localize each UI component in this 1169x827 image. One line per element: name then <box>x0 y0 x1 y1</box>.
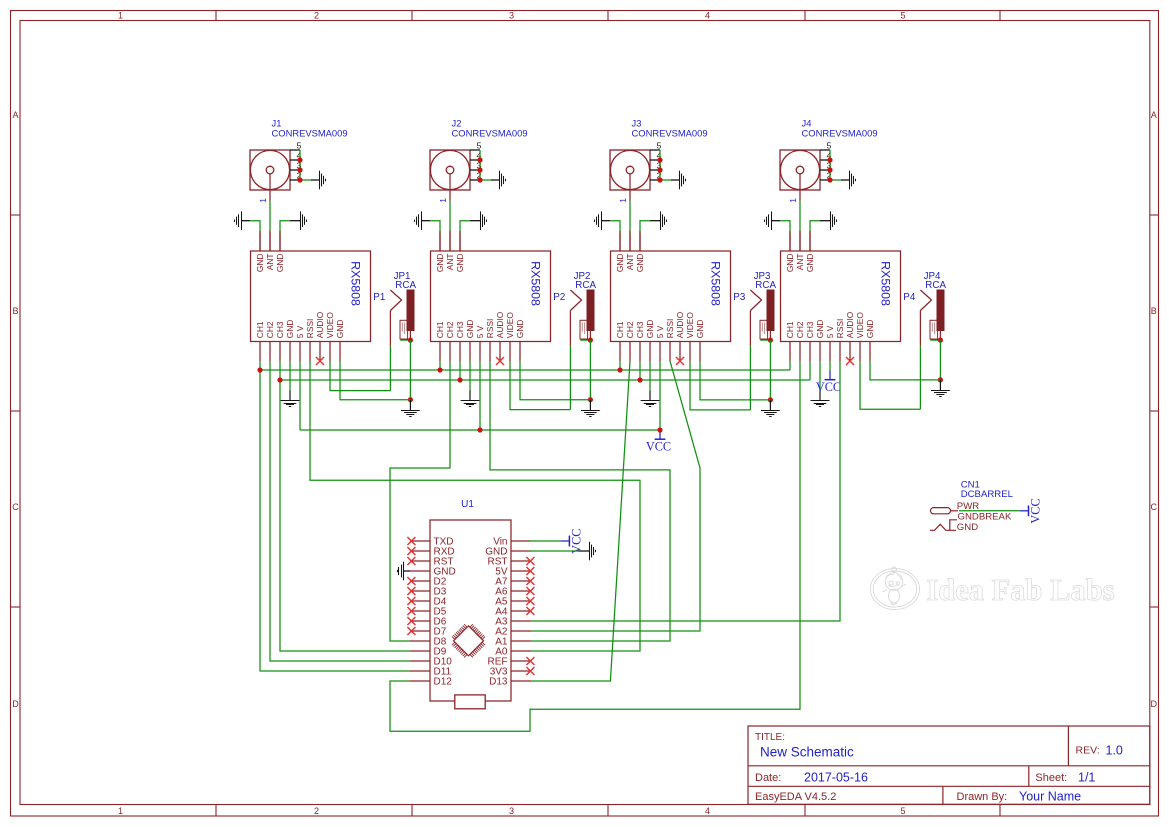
ground <box>281 390 300 406</box>
svg-text:3: 3 <box>509 806 514 816</box>
svg-text:CONREVSMA009: CONREVSMA009 <box>802 127 878 138</box>
J2 pins 5-2 <box>470 140 482 180</box>
svg-text:GND: GND <box>615 254 625 273</box>
svg-text:GND: GND <box>335 320 345 339</box>
svg-text:ANT: ANT <box>265 254 275 271</box>
junction <box>938 338 943 343</box>
wire <box>300 150 311 180</box>
wire <box>619 361 621 370</box>
svg-text:1: 1 <box>618 198 628 203</box>
ground <box>481 211 487 230</box>
wire <box>639 361 641 380</box>
no-connect AUDIO RX3 <box>676 357 684 365</box>
J3 pin 1 <box>618 190 630 203</box>
ground <box>850 171 856 190</box>
svg-text:5 V: 5 V <box>655 325 665 338</box>
svg-text:1: 1 <box>118 806 123 816</box>
wire <box>389 345 391 391</box>
svg-text:5: 5 <box>657 140 662 150</box>
svg-text:CH3: CH3 <box>635 321 645 338</box>
svg-text:RSSI: RSSI <box>305 319 315 339</box>
ground <box>680 171 686 190</box>
svg-text:1.0: 1.0 <box>1106 744 1123 758</box>
receiver module RX5808 #2 <box>431 231 551 361</box>
svg-text:B: B <box>1151 306 1157 316</box>
J4 pin 1 <box>788 190 800 203</box>
ground <box>500 171 506 190</box>
svg-text:1: 1 <box>258 198 268 203</box>
wire <box>629 231 631 252</box>
svg-text:Drawn By:: Drawn By: <box>957 791 1008 803</box>
connector J2 (CONREVSMA009) <box>430 117 528 190</box>
wire <box>919 345 921 409</box>
wire <box>520 361 590 400</box>
junction <box>768 338 773 343</box>
svg-text:5: 5 <box>827 140 832 150</box>
wire <box>640 221 660 251</box>
receiver module RX5808 #3 <box>611 231 731 361</box>
svg-text:AUDIO: AUDIO <box>315 311 325 338</box>
wire <box>690 361 750 410</box>
junction <box>657 157 662 182</box>
svg-text:RSSI: RSSI <box>485 319 495 339</box>
wire 5V bus <box>300 429 660 431</box>
wire <box>479 361 481 430</box>
ground <box>761 400 780 417</box>
wire <box>491 179 500 181</box>
ground <box>661 211 667 230</box>
ground <box>461 390 480 406</box>
wire <box>409 340 411 400</box>
svg-text:RX5808: RX5808 <box>879 261 893 306</box>
svg-text:P1: P1 <box>373 292 385 303</box>
svg-text:5: 5 <box>297 140 302 150</box>
svg-text:D: D <box>1151 699 1158 709</box>
svg-text:CH1: CH1 <box>785 321 795 338</box>
svg-text:CH1: CH1 <box>435 321 445 338</box>
wire CH1 bus <box>260 369 790 371</box>
receiver module RX5808 #4 <box>781 231 901 361</box>
svg-text:RX5808: RX5808 <box>529 261 543 306</box>
wire <box>400 339 410 341</box>
svg-text:GND: GND <box>515 320 525 339</box>
svg-text:Sheet:: Sheet: <box>1035 772 1067 784</box>
svg-text:GND: GND <box>255 254 265 273</box>
svg-text:GND: GND <box>815 320 825 339</box>
svg-text:VCC: VCC <box>569 529 583 554</box>
svg-text:CH1: CH1 <box>255 321 265 338</box>
wire <box>439 361 441 370</box>
wire <box>449 201 451 231</box>
svg-text:ANT: ANT <box>795 254 805 271</box>
wire <box>601 221 620 251</box>
junction <box>588 338 593 343</box>
RCA jack JP3 <box>750 271 776 345</box>
wire <box>449 231 451 252</box>
svg-text:D: D <box>12 699 19 709</box>
svg-text:4: 4 <box>705 11 710 21</box>
wire <box>700 361 770 400</box>
wire <box>629 201 631 231</box>
svg-text:U1: U1 <box>461 499 474 510</box>
wire <box>841 179 850 181</box>
wire <box>241 221 260 251</box>
wire <box>959 510 1020 512</box>
svg-text:RX5808: RX5808 <box>349 261 363 306</box>
junction <box>827 157 832 182</box>
svg-text:VIDEO: VIDEO <box>325 312 335 339</box>
wire <box>589 340 591 400</box>
svg-text:RSSI: RSSI <box>665 319 675 339</box>
svg-text:5: 5 <box>477 140 482 150</box>
svg-text:C: C <box>1151 502 1158 512</box>
svg-text:D12: D12 <box>434 676 453 687</box>
power flag VCC <box>816 371 841 395</box>
svg-text:2: 2 <box>314 806 319 816</box>
svg-text:B: B <box>12 306 18 316</box>
svg-text:P4: P4 <box>903 292 916 303</box>
wire <box>299 361 301 430</box>
svg-text:4: 4 <box>705 806 710 816</box>
wire <box>340 361 410 400</box>
junction <box>477 157 482 182</box>
wire <box>819 361 821 390</box>
svg-text:3: 3 <box>509 11 514 21</box>
svg-text:CH2: CH2 <box>445 321 455 338</box>
svg-text:VCC: VCC <box>1029 498 1043 523</box>
connector J1 (CONREVSMA009) <box>250 117 348 190</box>
wire <box>330 361 390 391</box>
wire <box>799 231 801 252</box>
wire <box>459 361 461 380</box>
svg-text:New Schematic: New Schematic <box>760 745 854 760</box>
wire <box>469 361 471 390</box>
svg-text:CONREVSMA009: CONREVSMA009 <box>272 127 348 138</box>
connector J3 (CONREVSMA009) <box>610 117 708 190</box>
junction <box>768 397 773 402</box>
svg-text:Your Name: Your Name <box>1019 790 1081 804</box>
ground <box>401 400 420 417</box>
wire <box>789 361 791 370</box>
svg-text:GND: GND <box>695 320 705 339</box>
wire <box>530 550 589 552</box>
svg-text:ANT: ANT <box>625 254 635 271</box>
svg-text:A: A <box>1151 110 1157 120</box>
J1 pins 5-2 <box>290 140 302 180</box>
svg-text:CH3: CH3 <box>805 321 815 338</box>
svg-text:GND: GND <box>635 254 645 273</box>
svg-text:CONREVSMA009: CONREVSMA009 <box>632 127 708 138</box>
svg-text:5 V: 5 V <box>825 325 835 338</box>
wire <box>771 221 790 251</box>
junction <box>297 157 302 182</box>
wire <box>760 339 770 341</box>
svg-text:GND: GND <box>285 320 295 339</box>
wire <box>649 361 651 390</box>
svg-text:D13: D13 <box>489 676 508 687</box>
wire <box>829 361 831 371</box>
svg-text:1: 1 <box>788 198 798 203</box>
svg-text:ANT: ANT <box>445 254 455 271</box>
wire <box>930 339 940 341</box>
ground <box>301 211 307 230</box>
svg-text:AUDIO: AUDIO <box>495 311 505 338</box>
svg-text:GND: GND <box>465 320 475 339</box>
ground <box>398 562 404 581</box>
svg-text:RX5808: RX5808 <box>709 261 723 306</box>
svg-text:5: 5 <box>900 806 905 816</box>
wire CH2 net <box>270 361 410 661</box>
wire <box>870 361 940 380</box>
svg-text:GND: GND <box>865 320 875 339</box>
junction <box>938 377 943 382</box>
svg-text:GND: GND <box>645 320 655 339</box>
RCA jack JP4 <box>920 271 946 345</box>
svg-text:CONREVSMA009: CONREVSMA009 <box>452 127 528 138</box>
wire <box>530 540 561 542</box>
no-connect AUDIO RX4 <box>846 357 854 365</box>
svg-text:Idea Fab Labs: Idea Fab Labs <box>926 573 1114 607</box>
no-connect marks U1 <box>407 537 534 675</box>
power flag VCC <box>1020 498 1043 523</box>
junction <box>277 377 642 382</box>
wire <box>659 361 661 430</box>
svg-text:1/1: 1/1 <box>1078 771 1095 785</box>
svg-text:A: A <box>12 110 18 120</box>
no-connect AUDIO RX2 <box>496 357 504 365</box>
power flag VCC <box>561 529 584 554</box>
svg-text:VIDEO: VIDEO <box>505 312 515 339</box>
svg-text:VIDEO: VIDEO <box>685 312 695 339</box>
wire RSSI3 <box>531 361 700 631</box>
wire <box>403 570 410 572</box>
wire <box>531 361 630 681</box>
wire <box>280 221 300 251</box>
svg-text:CH2: CH2 <box>625 321 635 338</box>
wire <box>289 361 291 390</box>
J3 pins 5-2 <box>650 140 662 180</box>
svg-text:P3: P3 <box>733 292 746 303</box>
wire <box>799 201 801 231</box>
wire CH1 net <box>260 361 410 671</box>
wire <box>390 361 450 641</box>
wire <box>311 179 320 181</box>
svg-text:PWR: PWR <box>957 501 979 512</box>
svg-text:2017-05-16: 2017-05-16 <box>804 771 868 785</box>
wire <box>421 221 440 251</box>
svg-text:GND: GND <box>275 254 285 273</box>
wire <box>390 361 800 731</box>
svg-text:CH2: CH2 <box>795 321 805 338</box>
svg-text:GND: GND <box>957 522 978 533</box>
svg-text:REV:: REV: <box>1076 745 1100 757</box>
ground <box>831 211 837 230</box>
ground <box>595 211 602 230</box>
ground <box>320 171 326 190</box>
connector J4 (CONREVSMA009) <box>780 117 878 190</box>
ground <box>811 390 830 406</box>
RCA jack JP1 <box>390 271 416 345</box>
svg-text:VIDEO: VIDEO <box>855 312 865 339</box>
wire <box>809 361 811 380</box>
wire <box>660 150 671 180</box>
RCA jack JP2 <box>570 271 596 345</box>
DC barrel connector CN1 <box>930 480 1014 533</box>
wire <box>749 345 751 410</box>
wire <box>269 231 271 252</box>
wire <box>269 201 271 231</box>
no-connect AUDIO RX1 <box>316 357 324 365</box>
ground <box>931 380 950 397</box>
svg-text:C: C <box>12 502 19 512</box>
ground <box>765 211 772 230</box>
ground <box>581 400 600 417</box>
ground <box>590 542 596 561</box>
svg-text:2: 2 <box>314 11 319 21</box>
power flag VCC <box>646 430 671 454</box>
ground <box>235 211 242 230</box>
svg-text:5 V: 5 V <box>475 325 485 338</box>
svg-text:GND: GND <box>455 254 465 273</box>
svg-text:CH1: CH1 <box>615 321 625 338</box>
wire CH3 net <box>280 361 410 651</box>
wire CH3 bus <box>280 379 810 381</box>
svg-text:AUDIO: AUDIO <box>845 311 855 338</box>
svg-text:TITLE:: TITLE: <box>755 732 785 743</box>
svg-text:GND: GND <box>805 254 815 273</box>
svg-text:5: 5 <box>900 11 905 21</box>
svg-text:CH3: CH3 <box>275 321 285 338</box>
svg-text:EasyEDA V4.5.2: EasyEDA V4.5.2 <box>755 791 836 803</box>
svg-text:1: 1 <box>118 11 123 21</box>
junction <box>477 427 662 432</box>
junction <box>257 367 622 372</box>
svg-text:VCC: VCC <box>816 380 841 394</box>
wire RSSI2 <box>490 361 670 641</box>
wire <box>460 221 480 251</box>
svg-text:CH3: CH3 <box>455 321 465 338</box>
junction <box>408 338 413 343</box>
svg-text:RSSI: RSSI <box>835 319 845 339</box>
wire <box>860 361 920 409</box>
svg-text:GND: GND <box>435 254 445 273</box>
J4 pins 5-2 <box>820 140 832 180</box>
svg-text:1: 1 <box>438 198 448 203</box>
svg-text:AUDIO: AUDIO <box>675 311 685 338</box>
junction <box>408 397 413 402</box>
svg-text:5 V: 5 V <box>295 325 305 338</box>
wire <box>671 179 680 181</box>
ground <box>641 390 660 406</box>
wire <box>830 150 841 180</box>
svg-text:CH2: CH2 <box>265 321 275 338</box>
svg-text:P2: P2 <box>553 292 565 303</box>
J1 pin 1 <box>258 190 270 203</box>
wire <box>810 221 830 251</box>
svg-text:Date:: Date: <box>755 772 781 784</box>
wire RSSI4 <box>531 361 840 621</box>
wire <box>569 345 571 410</box>
svg-text:DCBARREL: DCBARREL <box>961 489 1014 500</box>
wire RSSI1 <box>310 361 640 651</box>
receiver module RX5808 #1 <box>251 231 371 361</box>
J2 pin 1 <box>438 190 450 203</box>
junction <box>588 397 593 402</box>
wire <box>480 150 491 180</box>
wire <box>580 339 590 341</box>
controller U1 <box>410 499 531 709</box>
wire <box>939 340 941 380</box>
wire <box>769 340 771 400</box>
svg-text:GND: GND <box>785 254 795 273</box>
svg-text:VCC: VCC <box>646 440 671 454</box>
wire <box>510 361 570 410</box>
ground <box>415 211 422 230</box>
